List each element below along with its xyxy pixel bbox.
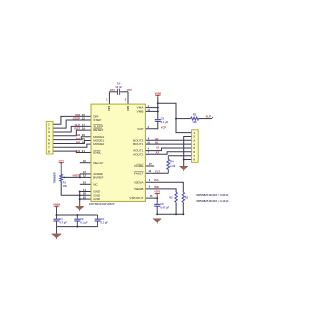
IC pin name VCP bbox=[137, 127, 143, 131]
pin number 15 bbox=[150, 195, 153, 198]
J2 pin 2 number bbox=[193, 135, 195, 139]
IC pin name RESET bbox=[93, 128, 103, 132]
wire FAULT to R4 bbox=[145, 172, 168, 174]
wire V3P3OUT bbox=[145, 197, 157, 199]
wire VMM to R5 bbox=[176, 118, 191, 120]
svg-text:C1: C1 bbox=[59, 217, 63, 221]
IC pin name HOME bbox=[134, 164, 143, 168]
IC pin name GND bbox=[93, 197, 101, 201]
capacitor C6 bbox=[154, 198, 169, 209]
wire EN from J1-8 bbox=[53, 151, 91, 152]
svg-text:TRIMMER: TRIMMER bbox=[54, 172, 57, 183]
svg-text:C3: C3 bbox=[101, 217, 105, 221]
IC pin name MODE2 bbox=[93, 135, 104, 139]
svg-text:0.1 µF: 0.1 µF bbox=[101, 221, 109, 225]
svg-text:RST: RST bbox=[74, 127, 80, 131]
ground under IC bbox=[76, 206, 84, 211]
pin number 10 bbox=[147, 141, 150, 144]
pin number 5 bbox=[148, 148, 150, 151]
capacitor C3 bbox=[95, 215, 109, 227]
wire VMA stub bbox=[145, 107, 157, 109]
svg-text:FLT: FLT bbox=[155, 169, 160, 173]
J1 pin 2 number bbox=[48, 126, 50, 130]
wire VMM vertical bbox=[157, 97, 159, 119]
IC pin name MODE1 bbox=[93, 139, 104, 143]
svg-text:VMB: VMB bbox=[137, 109, 144, 113]
svg-text:DRV8824 R2,R3 = 0.33 Ω: DRV8824 R2,R3 = 0.33 Ω bbox=[197, 193, 230, 197]
J1 pin 7 number bbox=[48, 145, 50, 149]
svg-text:0.47 µF: 0.47 µF bbox=[160, 205, 169, 209]
J2 pin 4 number bbox=[193, 142, 195, 146]
junction C2 bottom bbox=[76, 226, 78, 228]
svg-text:A2: A2 bbox=[156, 151, 160, 155]
wire to bottom ground bbox=[56, 227, 58, 234]
wire SLP from J1-3 bbox=[53, 126, 91, 132]
J2 pin 3 number bbox=[193, 138, 195, 142]
junction rail R3 bbox=[182, 213, 184, 215]
IC pin name MODE0 bbox=[93, 142, 104, 146]
wire ISENA bbox=[145, 182, 183, 192]
pin stub AVREF bbox=[80, 173, 91, 175]
junction rail R2 bbox=[175, 213, 177, 215]
wire RST from J1-4 bbox=[53, 130, 91, 136]
J2 pin 8 number bbox=[193, 158, 195, 162]
wire flag stem bbox=[156, 195, 158, 198]
IC pin name AOUT2 bbox=[133, 152, 144, 156]
IC pin name GND bbox=[93, 190, 101, 194]
svg-text:RESET: RESET bbox=[93, 128, 103, 132]
svg-text:HOME: HOME bbox=[134, 164, 143, 168]
svg-text:R5: R5 bbox=[193, 113, 197, 117]
capacitor C4 bbox=[115, 81, 122, 95]
pin number 27 bbox=[149, 163, 152, 166]
junction GND-PAD bbox=[79, 198, 81, 200]
svg-text:29: 29 bbox=[83, 195, 87, 199]
wire STEP from J1-2 bbox=[53, 120, 91, 128]
pin number 2 bbox=[125, 98, 127, 102]
resistor R5 bbox=[191, 113, 199, 124]
wire VMB stub bbox=[145, 110, 157, 112]
wire R2 bottom bbox=[175, 202, 177, 214]
IC pin name CP2 rotated bbox=[127, 105, 130, 110]
IC pin name BVREF bbox=[93, 175, 103, 179]
IC pin name DIR bbox=[93, 114, 99, 118]
svg-text:M0: M0 bbox=[76, 141, 80, 145]
pin stub GND-PAD bbox=[80, 198, 91, 200]
pin number 1 bbox=[106, 98, 108, 102]
IC part name bbox=[89, 202, 115, 206]
svg-text:0.1 µF: 0.1 µF bbox=[80, 221, 88, 225]
wire GND bus bbox=[79, 192, 81, 207]
svg-text:24: 24 bbox=[82, 141, 86, 145]
svg-text:ENBL: ENBL bbox=[93, 151, 101, 155]
wire VREF to R1 wiper bbox=[63, 176, 80, 178]
wire R4 to J2-7 bbox=[168, 155, 191, 157]
wire ISENB bbox=[145, 189, 176, 192]
wire flag to R1 bbox=[60, 163, 62, 174]
power flag VMM bottom bbox=[53, 202, 61, 208]
wire VMM stem bbox=[56, 208, 58, 216]
power flag V3P3 left bbox=[58, 160, 64, 164]
connector J1 body bbox=[46, 121, 53, 154]
pin stub BVREF bbox=[80, 176, 91, 178]
power flag VMM top bbox=[155, 91, 162, 97]
pin number 9 bbox=[149, 186, 151, 189]
pin number 24 bbox=[82, 141, 86, 145]
pin number 11 bbox=[147, 109, 150, 112]
wire C4 to CP2 bbox=[120, 91, 128, 93]
svg-text:19: 19 bbox=[83, 159, 87, 163]
svg-text:FAULT: FAULT bbox=[134, 171, 144, 175]
IC pin name CP1 rotated bbox=[108, 105, 111, 110]
resistor R3 bbox=[182, 192, 189, 202]
pin stub HOME bbox=[145, 165, 154, 167]
svg-text:A1: A1 bbox=[156, 146, 160, 150]
svg-text:16: 16 bbox=[82, 127, 86, 131]
svg-text:ISENB: ISENB bbox=[134, 187, 143, 191]
wire cap rail bottom bbox=[57, 226, 98, 228]
junction GND14 bbox=[79, 191, 81, 193]
label VCP bbox=[161, 125, 167, 129]
wire CP1 to C4 bbox=[109, 91, 117, 93]
svg-text:1.5k: 1.5k bbox=[170, 164, 176, 168]
label DIR net bbox=[75, 113, 81, 117]
label EN net bbox=[76, 149, 80, 153]
wire C6 to rail bbox=[156, 206, 158, 214]
IC pin name AVREF bbox=[93, 172, 103, 176]
J1 pin 5 number bbox=[48, 138, 50, 142]
wire VREF junction bbox=[79, 174, 81, 178]
pin number 22 bbox=[82, 116, 86, 120]
pin number 20 bbox=[82, 113, 86, 117]
pin number 7 bbox=[148, 151, 150, 154]
J2 pin 5 number bbox=[193, 146, 195, 150]
IC pin name DECAY bbox=[93, 161, 103, 165]
label M1 net bbox=[76, 137, 80, 141]
label VREF bbox=[72, 174, 79, 178]
junction C2 top bbox=[76, 214, 78, 216]
wire AOUT1 to J2-5 bbox=[145, 148, 191, 151]
junction VMA bbox=[157, 107, 159, 109]
wire M1 from J1-6 bbox=[53, 141, 91, 144]
junction V3P3OUT bbox=[156, 197, 158, 199]
svg-text:CP2: CP2 bbox=[127, 105, 130, 110]
wire M2 from J1-5 bbox=[53, 137, 91, 140]
J2 pin 1 number bbox=[193, 131, 195, 135]
pin number 13 bbox=[83, 174, 87, 178]
wire BOUT2 to J2-3 bbox=[145, 139, 191, 141]
IC pin name NC bbox=[93, 182, 98, 186]
pin number 12 bbox=[83, 170, 87, 174]
label M2 net bbox=[76, 133, 80, 137]
svg-text:CP1: CP1 bbox=[110, 88, 116, 92]
pin stub GND28 bbox=[80, 194, 91, 196]
svg-text:13: 13 bbox=[83, 174, 87, 178]
IC pin name ISENB bbox=[134, 187, 143, 191]
label SLP net bbox=[75, 123, 81, 127]
svg-text:STEP: STEP bbox=[73, 116, 81, 120]
svg-text:10k: 10k bbox=[192, 120, 197, 124]
svg-text:DRV8824/DRV8825: DRV8824/DRV8825 bbox=[89, 202, 115, 206]
label A2 bbox=[156, 151, 160, 155]
pin stub NC bbox=[80, 183, 91, 185]
svg-text:VCP: VCP bbox=[161, 125, 167, 129]
pin number 17 bbox=[82, 123, 86, 127]
IC pin name BOUT2 bbox=[133, 138, 144, 142]
pin number 28 bbox=[83, 192, 87, 196]
pin number 26 bbox=[82, 133, 86, 137]
capacitor C1 bbox=[54, 215, 68, 227]
svg-text:EN: EN bbox=[76, 149, 80, 153]
wire cap rail top bbox=[57, 214, 98, 216]
svg-text:R4: R4 bbox=[170, 160, 174, 164]
potentiometer R1 bbox=[54, 172, 68, 188]
IC pin name AOUT1 bbox=[133, 149, 144, 153]
svg-text:R2: R2 bbox=[169, 195, 173, 199]
wire sense ground rail bbox=[157, 213, 183, 215]
junction C1 top bbox=[56, 214, 58, 216]
junction R5 tap bbox=[175, 118, 177, 120]
svg-text:10 nF: 10 nF bbox=[115, 85, 122, 89]
svg-text:ISENA: ISENA bbox=[134, 180, 144, 184]
ground bottom left bbox=[52, 234, 62, 239]
pin number 21 bbox=[82, 149, 86, 153]
svg-text:22: 22 bbox=[82, 116, 86, 120]
pin number 8 bbox=[148, 138, 150, 141]
svg-text:VREF: VREF bbox=[72, 174, 79, 178]
wire J2-2 GND bbox=[184, 137, 192, 167]
svg-text:DECAY: DECAY bbox=[93, 161, 103, 165]
label ISB bbox=[154, 185, 159, 189]
wire C5 to VCP bbox=[145, 121, 157, 128]
svg-text:CP2: CP2 bbox=[127, 88, 133, 92]
svg-text:ISB: ISB bbox=[154, 185, 159, 189]
svg-text:B1: B1 bbox=[155, 141, 159, 145]
svg-text:C2: C2 bbox=[80, 217, 84, 221]
pin number 29 bbox=[83, 195, 87, 199]
IC pin name STEP bbox=[93, 118, 101, 122]
label ISA bbox=[154, 178, 159, 182]
IC pin name ISENA bbox=[134, 180, 144, 184]
svg-text:23: 23 bbox=[83, 181, 87, 185]
wire BOUT1 to J2-4 bbox=[145, 143, 191, 145]
svg-text:V3P3OUT: V3P3OUT bbox=[129, 196, 143, 200]
resistor R2 bbox=[169, 192, 177, 202]
J1 pin 8 number bbox=[48, 149, 50, 153]
svg-text:0.1 µF: 0.1 µF bbox=[161, 120, 169, 124]
capacitor C5 bbox=[155, 116, 169, 124]
svg-text:B2: B2 bbox=[155, 137, 159, 141]
junction VMB bbox=[157, 110, 159, 112]
svg-text:4.7 µF: 4.7 µF bbox=[59, 221, 67, 225]
wire DIR from J1-1 bbox=[53, 116, 91, 124]
svg-text:GND: GND bbox=[93, 197, 101, 201]
label M0 net bbox=[76, 141, 80, 145]
J2 pin 7 number bbox=[193, 154, 195, 158]
svg-text:C4: C4 bbox=[117, 81, 121, 85]
pin number 6 bbox=[149, 179, 151, 182]
pin number 18 bbox=[148, 170, 151, 173]
wire M0 from J1-7 bbox=[53, 144, 91, 147]
wire J2-8 GND bbox=[184, 159, 192, 161]
svg-text:C5: C5 bbox=[161, 116, 165, 120]
label CP2 bbox=[127, 88, 133, 92]
label SLP net bbox=[206, 114, 212, 118]
wire AOUT2 to J2-6 bbox=[145, 152, 191, 154]
svg-text:10k: 10k bbox=[63, 184, 68, 188]
wire R3 bottom bbox=[182, 202, 184, 214]
IC pin name BOUT1 bbox=[133, 142, 144, 146]
label B2 bbox=[155, 137, 159, 141]
pin stub GND14 bbox=[80, 191, 91, 193]
pin number 4 bbox=[148, 105, 150, 108]
ground under sense rail bbox=[153, 219, 161, 224]
label CP1 bbox=[110, 88, 116, 92]
junction VMM branch bbox=[157, 102, 159, 104]
IC pin name VMB bbox=[137, 109, 144, 113]
capacitor C2 bbox=[74, 215, 88, 227]
IC pin name V3P3OUT bbox=[129, 196, 143, 200]
connector J2 body bbox=[192, 130, 199, 163]
label FLT bbox=[155, 169, 160, 173]
IC pin name VMA bbox=[137, 106, 145, 110]
pin number 25 bbox=[82, 137, 86, 141]
ground under J2 bbox=[180, 166, 188, 171]
wire R5 to SLP label bbox=[199, 117, 213, 119]
svg-text:VMM: VMM bbox=[53, 202, 61, 206]
power flag V3P3 right bbox=[154, 192, 160, 196]
label B1 bbox=[155, 141, 159, 145]
svg-text:CP1: CP1 bbox=[108, 105, 111, 110]
wire CP2 drop bbox=[127, 92, 129, 104]
wire CP1 drop bbox=[108, 92, 110, 104]
pin stub DECAY bbox=[80, 162, 91, 164]
IC pin name FAULT bbox=[134, 171, 144, 175]
IC pin name ENBL bbox=[93, 151, 101, 155]
label RST net bbox=[74, 127, 80, 131]
label A1 bbox=[156, 146, 160, 150]
svg-text:DRV8825 R2,R3 = 0.10 Ω: DRV8825 R2,R3 = 0.10 Ω bbox=[197, 199, 230, 203]
svg-text:VCP: VCP bbox=[137, 127, 143, 131]
J1 pin 6 number bbox=[48, 142, 50, 146]
label STEP net bbox=[73, 116, 81, 120]
J1 pin 1 number bbox=[48, 122, 50, 126]
wire VMM to J2-1 bbox=[158, 103, 192, 132]
wire R1 bottom to GND bus bbox=[61, 181, 79, 195]
note DRV8824 bbox=[197, 193, 230, 197]
svg-text:BVREF: BVREF bbox=[93, 175, 103, 179]
pin number 23 bbox=[83, 181, 87, 185]
IC pin name SLEEP bbox=[93, 124, 103, 128]
svg-text:AOUT2: AOUT2 bbox=[133, 152, 144, 156]
pin number 16 bbox=[82, 127, 86, 131]
note DRV8825 bbox=[197, 199, 230, 203]
junction rail C6 bbox=[156, 213, 158, 215]
junction GND28 bbox=[79, 194, 81, 196]
svg-text:NC: NC bbox=[93, 182, 98, 186]
junction AVREF/BVREF bbox=[79, 176, 81, 178]
J1 pin 4 number bbox=[48, 134, 50, 138]
pin number 3 bbox=[148, 126, 150, 129]
pin number 14 bbox=[83, 188, 87, 192]
svg-text:SLP: SLP bbox=[206, 114, 212, 118]
IC pin name GND bbox=[93, 193, 101, 197]
svg-text:R3: R3 bbox=[185, 195, 189, 199]
resistor R4 bbox=[167, 156, 176, 174]
pin number 19 bbox=[83, 159, 87, 163]
svg-text:MODE0: MODE0 bbox=[93, 142, 104, 146]
svg-text:ISA: ISA bbox=[154, 178, 159, 182]
junction J2-8 bbox=[183, 159, 185, 161]
J2 pin 6 number bbox=[193, 150, 195, 154]
svg-text:BOUT1: BOUT1 bbox=[133, 142, 144, 146]
IC U1 DRV8824/DRV8825 body bbox=[91, 104, 145, 201]
svg-text:21: 21 bbox=[82, 149, 86, 153]
svg-text:STEP: STEP bbox=[93, 118, 101, 122]
svg-text:VMM: VMM bbox=[155, 91, 162, 95]
J1 pin 3 number bbox=[48, 130, 50, 134]
